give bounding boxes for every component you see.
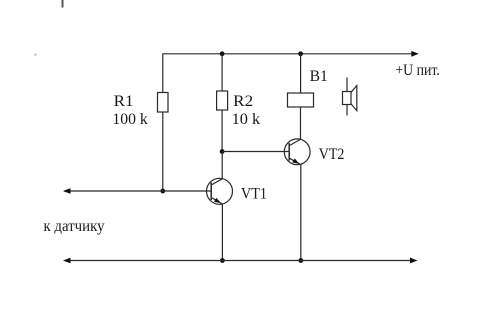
wire R2 bottom to junction [221, 110, 223, 152]
wire bottom rail [67, 260, 413, 262]
wire VT2 base lead [222, 151, 289, 153]
wire R2 top drop [221, 54, 223, 91]
component B1 box [288, 93, 314, 107]
wire VT2 emitter down [300, 165, 302, 261]
stray tick mark top [62, 0, 64, 8]
junction dot VT2 base [220, 149, 225, 154]
arrowhead bottom right [410, 258, 418, 264]
svg-text:R2: R2 [233, 93, 253, 110]
svg-text:R1: R1 [114, 93, 134, 110]
svg-text:VT2: VT2 [319, 146, 345, 163]
resistor R1 [158, 93, 169, 113]
transistor VT1 [207, 178, 233, 205]
wire VT1 emitter down [221, 204, 223, 261]
svg-text:B1: B1 [310, 68, 328, 85]
wire R1 bottom to base line [162, 112, 164, 191]
transistor VT2 [284, 139, 310, 166]
arrowhead bottom left [63, 258, 71, 264]
wire junction to VT1 collector [221, 152, 223, 179]
arrowhead +U right [411, 51, 419, 57]
svg-text:+U пит.: +U пит. [395, 62, 439, 79]
wire sensor lead [64, 190, 211, 192]
resistor R2 [217, 91, 228, 110]
junction dot R2 top [220, 51, 225, 56]
svg-text:100 k: 100 k [112, 111, 147, 128]
wire R1 top drop [162, 54, 164, 93]
svg-text:10 k: 10 k [232, 111, 261, 128]
junction dot VT1 emitter bottom [220, 258, 225, 263]
junction dot B1 top [298, 51, 303, 56]
stray faint dot [34, 53, 37, 56]
wire B1 top drop [300, 54, 302, 93]
svg-text:VT1: VT1 [241, 186, 267, 203]
junction dot VT2 emitter bottom [298, 258, 303, 263]
arrowhead sensor left [63, 188, 71, 194]
svg-text:к датчику: к датчику [44, 218, 105, 235]
wire B1 to VT2 collector [300, 107, 302, 139]
loudspeaker icon [343, 78, 357, 116]
junction dot R1/base [160, 189, 165, 194]
wire top +U rail [162, 53, 413, 55]
